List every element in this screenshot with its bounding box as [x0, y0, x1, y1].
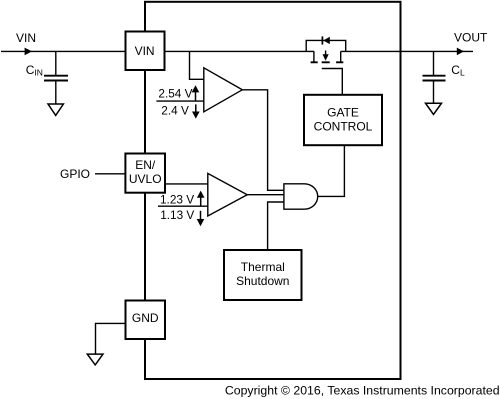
wire: comparator U2 threshold input line: [158, 205, 208, 207]
GATE CONTROL block: [304, 95, 382, 145]
svg-text:2.4 V: 2.4 V: [161, 104, 189, 118]
wire: CL to ground: [433, 81, 435, 103]
svg-text:CIN: CIN: [26, 63, 43, 78]
ground symbol below GND wire: [87, 354, 103, 365]
arrow up (U2 rising): [200, 197, 202, 206]
ground symbol below CL: [426, 103, 442, 114]
wire: drop to comparator U1 + input: [190, 51, 204, 79]
svg-text:VOUT: VOUT: [454, 31, 488, 45]
wire: comparator U1 output to AND gate: [242, 90, 284, 191]
transistor Q1 body-diode branch: [306, 40, 346, 51]
svg-text:1.23 V: 1.23 V: [160, 193, 194, 207]
GND pin box: [126, 301, 166, 340]
transistor Q1 channel bars: [311, 61, 344, 63]
svg-text:2.54 V: 2.54 V: [158, 87, 192, 101]
wire: CL drop from rail: [433, 51, 435, 75]
transistor Q1 body arrow: [325, 51, 327, 55]
wire: comparator U2 output to AND gate: [247, 194, 284, 196]
transistor Q1 right channel stub: [340, 51, 342, 61]
wire: GND box to ground symbol: [96, 323, 126, 353]
wire: GPIO input: [95, 173, 126, 175]
op-amp U2 comparator triangle: [208, 173, 247, 216]
capacitor CL plates: [423, 76, 446, 81]
transistor Q1 gate line to Gate Control: [322, 69, 343, 96]
svg-text:1.13 V: 1.13 V: [160, 208, 194, 222]
AND gate U3: [284, 184, 318, 209]
arrowhead on VOUT: [457, 48, 464, 56]
arrow down (U2 falling): [200, 211, 202, 220]
svg-text:Copyright © 2016, Texas Instru: Copyright © 2016, Texas Instruments Inco…: [225, 383, 500, 397]
wire: comparator U1 threshold input line: [156, 100, 203, 102]
wire: rail from pass FET to VOUT: [341, 50, 473, 52]
ground symbol below CIN: [48, 104, 63, 115]
op-amp U1 comparator triangle: [204, 68, 243, 112]
svg-text:VIN: VIN: [135, 44, 155, 58]
Thermal Shutdown block: [224, 250, 302, 300]
svg-text:GPIO: GPIO: [60, 167, 90, 181]
svg-text:VIN: VIN: [16, 31, 36, 45]
VIN pin box: [126, 32, 165, 71]
svg-text:Shutdown: Shutdown: [236, 274, 289, 288]
svg-text:CONTROL: CONTROL: [314, 119, 373, 133]
wire: AND gate output to Gate Control: [318, 145, 345, 196]
svg-text:EN/: EN/: [135, 158, 156, 172]
svg-text:UVLO: UVLO: [129, 172, 162, 186]
transistor Q1 left channel stub: [313, 51, 315, 61]
svg-text:GND: GND: [132, 311, 159, 325]
diode D1 triangle: [323, 37, 330, 44]
wire: CIN drop from rail: [55, 51, 57, 75]
svg-text:GATE: GATE: [327, 105, 359, 119]
wire: CIN to ground: [55, 81, 57, 104]
svg-text:CL: CL: [451, 63, 465, 78]
EN/UVLO pin box: [125, 154, 165, 193]
capacitor CIN plates: [44, 76, 68, 81]
wire: VIN input rail: [1, 50, 126, 52]
arrow up (U1 rising): [195, 92, 197, 101]
wire: EN/UVLO to comparator U2: [165, 183, 208, 185]
IC boundary rectangle: [145, 2, 401, 379]
arrowhead on VIN input: [25, 48, 32, 56]
wire: Thermal Shutdown to AND gate: [268, 202, 284, 250]
diode D1 cathode bar: [321, 36, 323, 44]
arrow down (U1 falling): [195, 104, 197, 112]
wire: rail from VIN box to pass FET: [165, 50, 315, 52]
svg-text:Thermal: Thermal: [241, 260, 285, 274]
